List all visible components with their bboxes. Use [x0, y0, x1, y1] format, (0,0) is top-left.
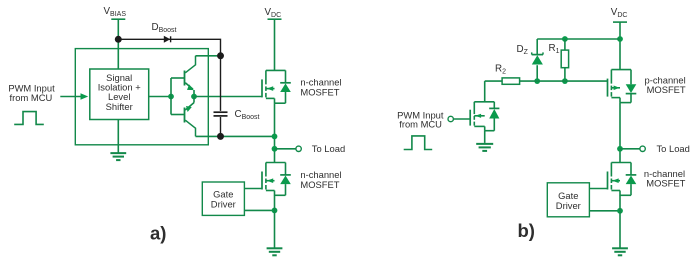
svg-text:MOSFET: MOSFET — [646, 177, 685, 188]
svg-text:b): b) — [518, 220, 535, 241]
svg-text:from MCU: from MCU — [399, 119, 442, 130]
svg-text:MOSFET: MOSFET — [300, 179, 339, 190]
svg-text:from MCU: from MCU — [10, 92, 53, 103]
svg-text:MOSFET: MOSFET — [300, 86, 339, 97]
svg-text:To Load: To Load — [657, 143, 690, 154]
svg-text:Driver: Driver — [211, 198, 236, 209]
svg-text:Shifter: Shifter — [106, 101, 133, 112]
svg-text:Driver: Driver — [556, 200, 581, 211]
svg-text:MOSFET: MOSFET — [647, 84, 686, 95]
svg-text:To Load: To Load — [312, 143, 345, 154]
svg-text:a): a) — [150, 223, 166, 244]
